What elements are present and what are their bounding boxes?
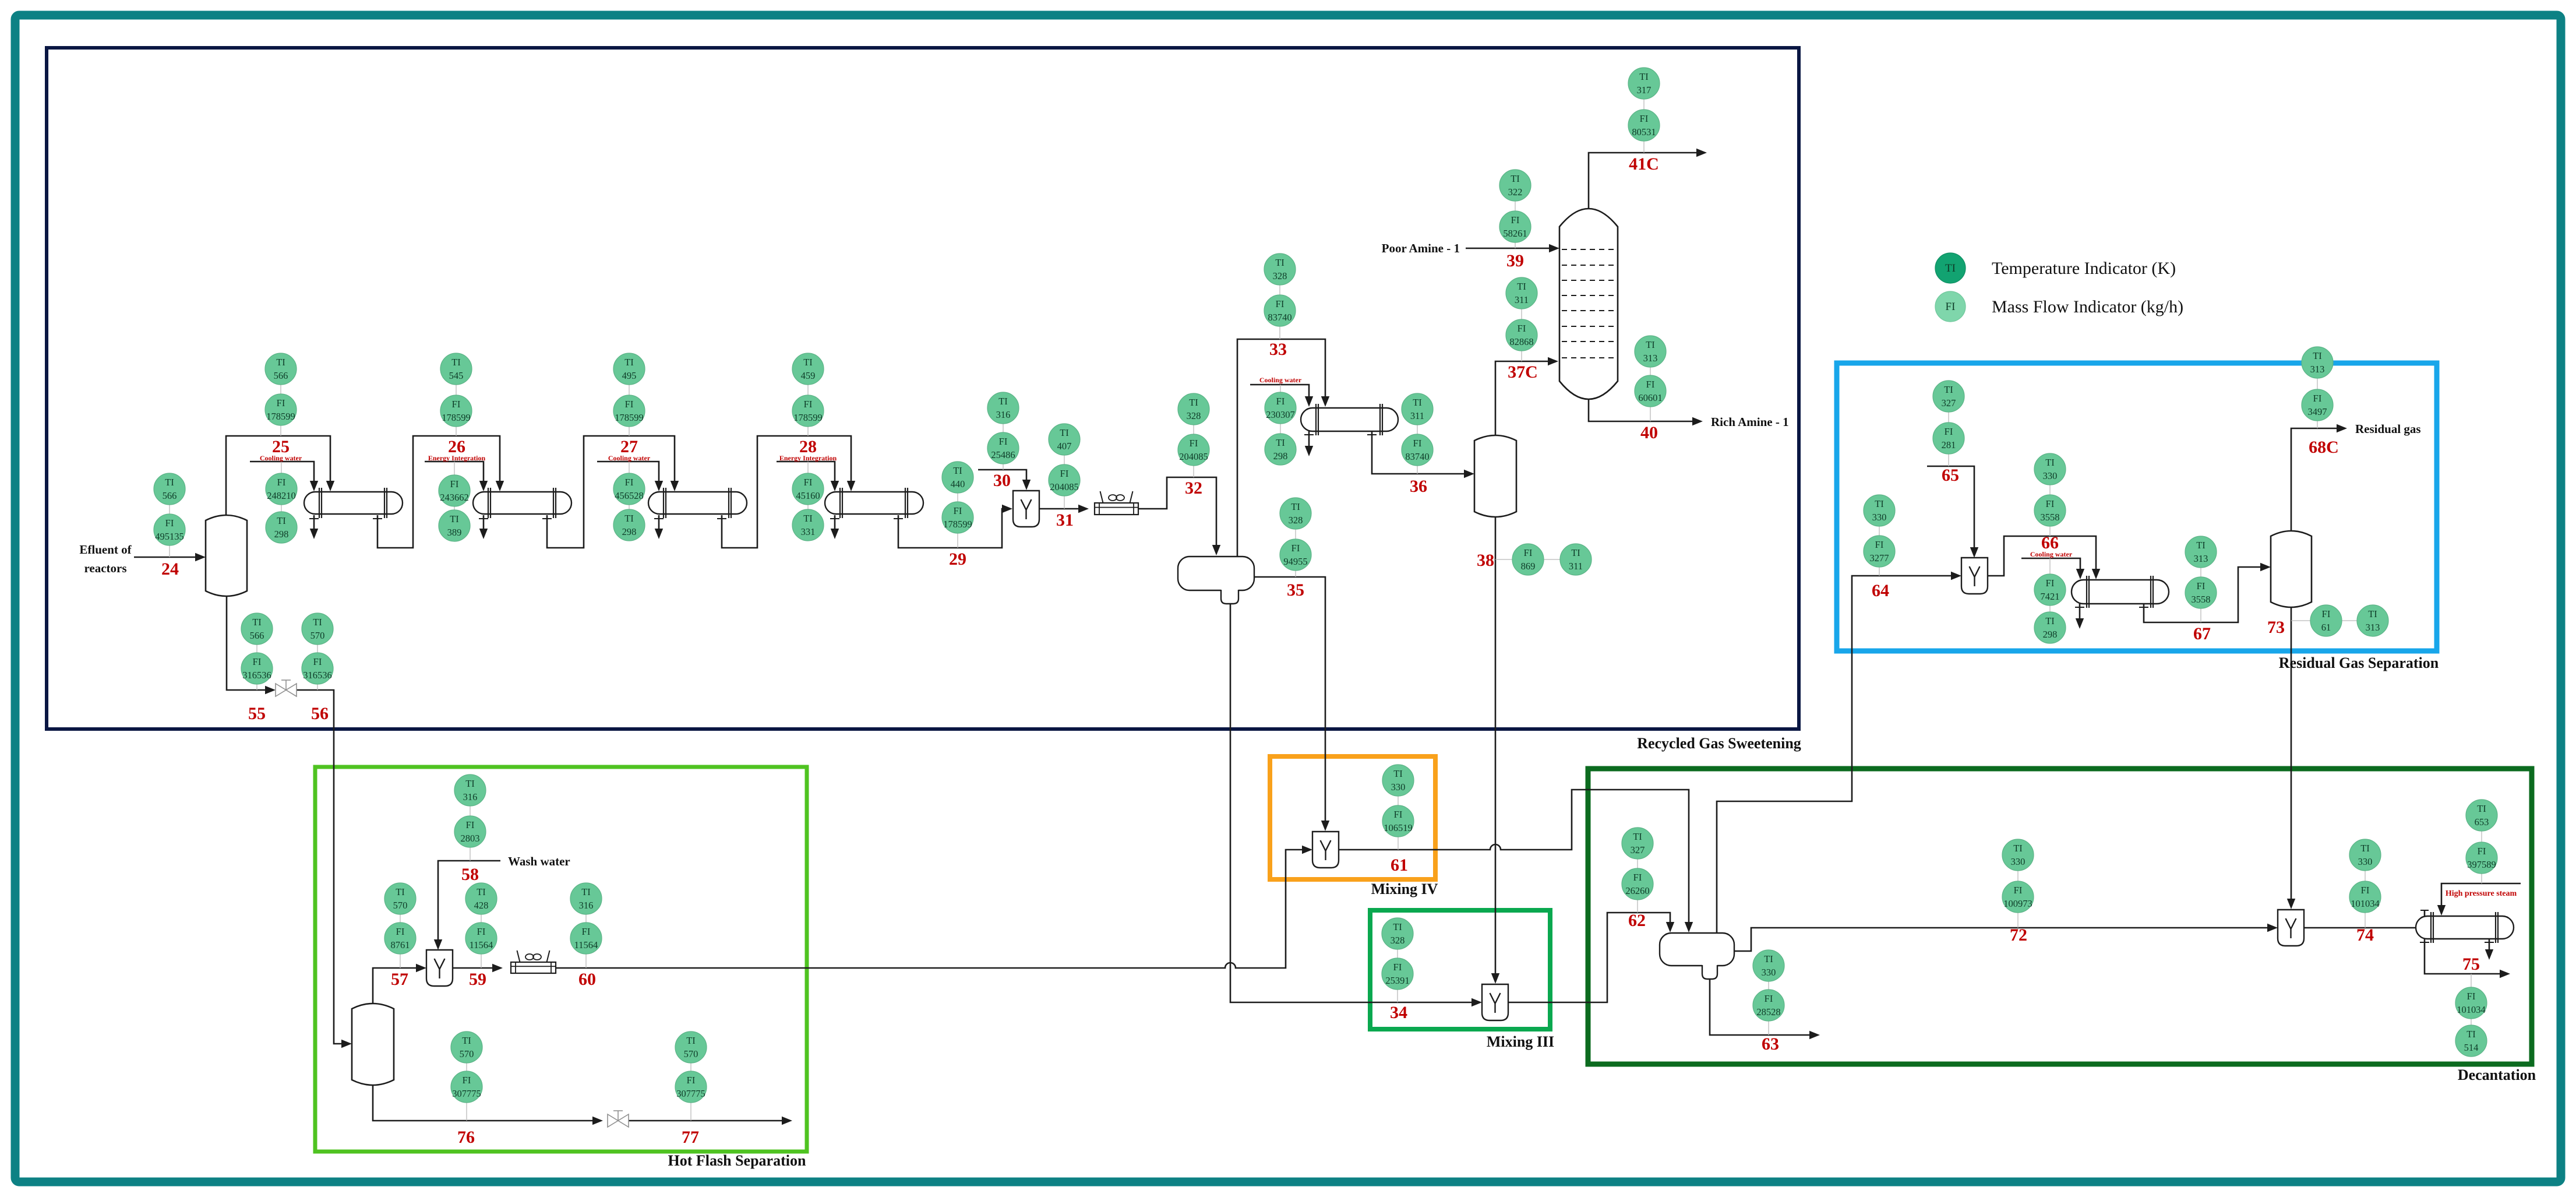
svg-text:Mixing III: Mixing III — [1487, 1033, 1554, 1050]
wire: HX6 process outlet to vessel V4 (stream 67) — [2139, 607, 2148, 608]
valve between streams 76 and 77 — [608, 1114, 618, 1127]
svg-text:570: 570 — [460, 1048, 474, 1059]
connector 25 util — [281, 462, 282, 527]
instrument FI 178599 stream 26 — [440, 395, 472, 427]
svg-text:FI: FI — [2478, 846, 2486, 857]
svg-text:FI: FI — [1393, 962, 1402, 973]
svg-text:TI: TI — [1944, 384, 1953, 395]
svg-text:566: 566 — [250, 630, 264, 641]
svg-text:FI: FI — [1945, 426, 1953, 437]
svg-text:869: 869 — [1521, 561, 1536, 572]
wire: compressor K1 outlet to drum D1 (stream 32) — [1138, 477, 1216, 547]
svg-text:58261: 58261 — [1503, 228, 1527, 239]
instrument TI 327 stream 62 — [1622, 828, 1653, 859]
svg-text:322: 322 — [1508, 186, 1523, 198]
wire: cooling water into HX3 — [597, 462, 659, 484]
instrument FI 2803 stream 58 — [454, 816, 486, 847]
svg-text:68C: 68C — [2309, 438, 2339, 457]
svg-text:FI: FI — [1524, 547, 1533, 558]
legend FI circle — [1935, 291, 1965, 322]
wire: wash water into mixer M2 (stream 58) — [438, 861, 500, 942]
wire: HX3 utility outlet — [654, 518, 664, 519]
wire: HX6 utility outlet — [2075, 607, 2084, 608]
instrument FI 45160 energy integration 28 — [792, 473, 824, 505]
instrument TI 331 energy integration 28 — [792, 509, 824, 541]
wire: vessel V4 top residual gas (stream 68C) — [2291, 428, 2339, 531]
svg-text:83740: 83740 — [1268, 312, 1291, 323]
connector 24 — [169, 489, 170, 557]
instrument TI 313 stream 73 — [2357, 605, 2388, 636]
svg-text:TI: TI — [803, 357, 813, 368]
instrument FI 316536 stream 55 — [241, 653, 273, 684]
svg-text:TI: TI — [624, 357, 634, 368]
svg-text:24: 24 — [161, 559, 179, 579]
svg-text:316536: 316536 — [303, 670, 332, 681]
svg-text:72: 72 — [2010, 925, 2027, 945]
svg-text:FI: FI — [804, 399, 813, 410]
wire: drum D1 liquid to mixer M3 (stream 35) — [1254, 577, 1325, 823]
svg-text:FI: FI — [625, 477, 634, 488]
instrument FI 7421 cooling water 66 — [2034, 574, 2066, 605]
svg-text:Residual gas: Residual gas — [2355, 422, 2421, 436]
connector 58 — [470, 790, 471, 861]
wire: mixer M2 outlet (stream 59) — [453, 967, 495, 969]
svg-text:High pressure steam: High pressure steam — [2446, 889, 2517, 898]
svg-text:Residual Gas Separation: Residual Gas Separation — [2279, 654, 2439, 671]
section box: Residual Gas Separation — [1837, 363, 2437, 651]
svg-text:TI: TI — [803, 513, 813, 524]
svg-text:FI: FI — [1765, 993, 1773, 1004]
svg-text:58: 58 — [461, 865, 479, 884]
svg-text:330: 330 — [1872, 512, 1887, 523]
svg-text:313: 313 — [1643, 353, 1658, 364]
connector 30 — [1003, 408, 1004, 470]
wire: HX7 vent nozzle — [2424, 910, 2426, 916]
svg-text:Wash water: Wash water — [508, 854, 570, 868]
instrument FI 178599 stream 27 — [613, 395, 645, 427]
connector 60 — [585, 899, 587, 968]
svg-text:FI: FI — [1291, 543, 1300, 554]
heat exchanger E4 (energy integration, stream 28) — [825, 492, 923, 514]
drum D2 decanter with boot — [1660, 933, 1734, 966]
instrument TI 330 stream 72 — [2002, 839, 2034, 871]
instrument FI 307775 stream 77 — [675, 1071, 707, 1103]
wire: mixer M1 outlet (stream 31) — [1040, 508, 1081, 510]
wire: drum D1 boot to mixer M4 (stream 34) — [1230, 604, 1474, 1002]
section box: Mixing IV — [1270, 756, 1435, 879]
wire: vessel V4 bottom to mixer M6 (stream 73) — [2291, 607, 2292, 901]
svg-text:311: 311 — [1569, 561, 1583, 572]
instrument FI 28528 stream 63 — [1753, 990, 1784, 1021]
wire: vessel V1 top to HX1 (stream 25) — [226, 436, 330, 515]
svg-text:FI: FI — [804, 477, 813, 488]
svg-text:545: 545 — [449, 370, 464, 381]
instrument TI 327 stream 65 — [1933, 381, 1964, 412]
svg-text:330: 330 — [1391, 781, 1406, 793]
svg-text:Decantation: Decantation — [2458, 1066, 2536, 1083]
instrument TI 440 stream 29 — [942, 462, 973, 493]
instrument TI 328 stream 32 — [1178, 393, 1209, 425]
svg-text:FI: FI — [1511, 214, 1520, 226]
svg-text:313: 313 — [2366, 622, 2380, 633]
section box: Recycled Gas Sweetening — [47, 48, 1799, 729]
svg-text:298: 298 — [1273, 450, 1288, 462]
wire: cooling water into HX1 — [250, 462, 314, 484]
instrument FI 11564 stream 60 — [570, 923, 602, 954]
svg-text:FI: FI — [1875, 539, 1884, 550]
connector 62 — [1637, 843, 1638, 913]
svg-text:204085: 204085 — [1050, 481, 1079, 492]
svg-text:11564: 11564 — [470, 939, 493, 950]
svg-text:TI: TI — [1517, 281, 1526, 292]
svg-text:2803: 2803 — [461, 833, 480, 844]
vessel V4 residual gas separator — [2271, 531, 2312, 607]
svg-text:TI: TI — [1764, 953, 1773, 964]
svg-text:FI: FI — [1413, 438, 1422, 449]
svg-text:TI: TI — [451, 357, 461, 368]
connector 55 — [256, 629, 257, 690]
wire: mixer M4 outlet to drum D2 (stream 62) — [1509, 913, 1670, 1002]
svg-text:TI: TI — [465, 778, 475, 789]
svg-text:TI: TI — [1571, 547, 1580, 558]
connector 74 — [2365, 855, 2366, 928]
connector 28 util — [807, 462, 809, 525]
wire: HX3 process outlet to HX4 (stream 28) — [717, 518, 726, 519]
svg-text:FI: FI — [1633, 872, 1642, 883]
svg-text:100973: 100973 — [2003, 898, 2032, 909]
svg-text:178599: 178599 — [442, 412, 471, 423]
svg-text:Poor Amine - 1: Poor Amine - 1 — [1382, 241, 1460, 255]
instrument FI 178599 stream 29 — [942, 502, 973, 533]
svg-text:Mixing IV: Mixing IV — [1371, 881, 1438, 897]
svg-text:FI: FI — [2361, 885, 2370, 896]
instrument TI 514 stream 75 — [2455, 1025, 2487, 1057]
svg-text:FI: FI — [1060, 468, 1069, 479]
instrument FI 26260 stream 62 — [1622, 868, 1653, 900]
svg-text:FI: FI — [1646, 379, 1655, 390]
svg-text:45160: 45160 — [796, 490, 820, 501]
svg-text:298: 298 — [2043, 629, 2058, 640]
svg-text:36: 36 — [1410, 477, 1427, 496]
svg-text:298: 298 — [622, 526, 637, 537]
svg-text:64: 64 — [1872, 581, 1889, 600]
instrument FI 204085 stream 31 — [1049, 464, 1080, 496]
svg-text:FI: FI — [463, 1075, 471, 1086]
svg-text:330: 330 — [2358, 856, 2373, 867]
connector 63 — [1768, 966, 1769, 1035]
instrument TI 566 stream 25 — [265, 353, 297, 385]
svg-text:67: 67 — [2193, 624, 2211, 643]
svg-text:FI: FI — [2014, 885, 2023, 896]
svg-text:60: 60 — [578, 970, 596, 989]
connector 28 — [807, 369, 809, 436]
instrument TI 316 stream 30 — [987, 392, 1019, 424]
column tray 6 — [1562, 326, 1615, 327]
wire: drum D2 vapor to mixer M5 (stream 64) — [1717, 576, 1953, 933]
instrument FI 204085 stream 32 — [1178, 434, 1209, 466]
air cooler K2 (stream 59) — [511, 962, 556, 973]
svg-text:459: 459 — [801, 370, 816, 381]
svg-text:TI: TI — [2313, 350, 2322, 361]
svg-text:33: 33 — [1269, 340, 1287, 359]
wire: HX5 process outlet to vessel V2 (stream 36) — [1367, 434, 1377, 435]
instrument FI 25391 stream 34 — [1382, 958, 1413, 990]
svg-text:61: 61 — [1391, 855, 1408, 875]
instrument FI 316536 stream 56 — [302, 653, 333, 684]
connector 26 — [456, 369, 457, 436]
svg-text:178599: 178599 — [266, 411, 295, 422]
wire: column overhead (stream 41C) — [1589, 153, 1699, 209]
svg-text:TI: TI — [1639, 71, 1649, 82]
instrument FI 248210 cooling water 25 — [266, 473, 297, 505]
instrument FI 106519 stream 61 — [1382, 805, 1414, 837]
instrument TI 389 energy integration 26 — [439, 510, 470, 541]
instrument FI 456528 cooling water 27 — [613, 473, 645, 505]
connector 66 — [2049, 469, 2051, 536]
svg-text:FI: FI — [625, 399, 634, 410]
connector 37C — [1521, 293, 1522, 361]
svg-text:TI: TI — [277, 515, 286, 526]
svg-text:495135: 495135 — [155, 531, 184, 542]
svg-text:566: 566 — [163, 490, 177, 501]
wire: vessel V2 bottom to mixer M4 (stream 38) — [1495, 517, 1497, 976]
wire: cooling water into HX6 — [2021, 558, 2080, 571]
connector 27 — [629, 369, 630, 436]
svg-text:570: 570 — [393, 900, 408, 911]
svg-text:566: 566 — [274, 370, 288, 381]
instrument FI 83740 stream 33 — [1264, 295, 1296, 326]
instrument TI 322 stream 39 — [1499, 170, 1531, 201]
svg-text:Efluent of: Efluent of — [79, 543, 132, 557]
svg-text:316: 316 — [463, 791, 478, 802]
wire: HX1 cooling water outlet — [309, 518, 319, 519]
connector 77 — [690, 1047, 691, 1121]
wire: stream 30 into mixer M1 — [978, 470, 1026, 483]
svg-text:178599: 178599 — [615, 412, 644, 423]
svg-text:TI: TI — [2360, 843, 2370, 854]
wire: HX2 process outlet to HX3 (stream 27) — [542, 518, 552, 519]
wire: vessel V3 bottom streams 76/77 — [373, 1085, 595, 1121]
instrument FI 58261 stream 39 — [1499, 211, 1531, 242]
svg-text:TI: TI — [581, 886, 591, 897]
svg-text:316: 316 — [996, 409, 1011, 420]
svg-text:FI: FI — [313, 656, 322, 667]
svg-text:407: 407 — [1057, 441, 1072, 452]
instrument TI 298 cooling water 27 — [613, 509, 645, 541]
instrument FI 80531 stream 41C — [1628, 110, 1660, 141]
svg-text:TI: TI — [396, 886, 405, 897]
connector 59 — [481, 899, 482, 968]
svg-text:28528: 28528 — [1756, 1006, 1780, 1018]
svg-text:514: 514 — [2464, 1042, 2479, 1053]
svg-text:204085: 204085 — [1179, 451, 1208, 462]
svg-text:313: 313 — [2310, 364, 2325, 375]
svg-text:FI: FI — [2313, 393, 2322, 404]
heat exchanger E5 (cooling water, stream 33) — [1301, 408, 1398, 431]
svg-text:FI: FI — [477, 926, 486, 937]
svg-text:TI: TI — [1875, 498, 1884, 509]
svg-text:TI: TI — [2196, 540, 2206, 551]
svg-text:389: 389 — [447, 527, 462, 538]
svg-text:60601: 60601 — [1638, 392, 1662, 403]
svg-text:59: 59 — [469, 970, 486, 989]
instrument FI 25486 stream 30 — [987, 432, 1019, 464]
svg-text:TI: TI — [1291, 501, 1300, 512]
svg-text:330: 330 — [2011, 856, 2025, 867]
wire: column bottoms rich amine (stream 40) — [1589, 399, 1695, 421]
instrument TI 298 cooling water 66 — [2034, 612, 2066, 643]
svg-text:495: 495 — [622, 370, 637, 381]
instrument FI 101034 stream 75 — [2455, 987, 2487, 1019]
svg-text:230307: 230307 — [1266, 409, 1295, 420]
svg-text:TI: TI — [462, 1035, 471, 1046]
instrument FI 3277 stream 64 — [1864, 536, 1895, 567]
svg-text:FI: FI — [277, 397, 285, 409]
svg-text:TI: TI — [276, 357, 285, 368]
svg-text:FI: FI — [452, 399, 461, 410]
instrument TI 495 stream 27 — [613, 353, 645, 385]
svg-text:Hot Flash Separation: Hot Flash Separation — [668, 1152, 806, 1169]
heat exchanger E2 (energy integration, stream 26) — [473, 492, 571, 514]
instrument TI 428 stream 59 — [465, 883, 497, 914]
instrument FI 869 stream 38 — [1512, 544, 1544, 575]
connector 64 — [1879, 511, 1880, 576]
svg-text:FI: FI — [165, 517, 174, 529]
svg-text:61: 61 — [2321, 622, 2331, 633]
connector 29 — [957, 477, 958, 548]
connector 25 — [280, 369, 281, 436]
svg-text:570: 570 — [684, 1048, 698, 1059]
drum D1 with boot (stream 32) — [1178, 557, 1254, 590]
svg-text:TI: TI — [1393, 921, 1402, 932]
svg-text:327: 327 — [1631, 844, 1645, 855]
svg-text:FI: FI — [1640, 113, 1649, 124]
wire: stream 24 feed — [134, 557, 196, 558]
svg-text:TI: TI — [450, 513, 459, 524]
connector 40 — [1650, 351, 1651, 421]
svg-text:178599: 178599 — [943, 519, 972, 530]
svg-text:TI: TI — [1189, 397, 1198, 408]
svg-text:311: 311 — [1410, 410, 1424, 421]
svg-text:311: 311 — [1515, 294, 1529, 305]
mixer M4 Mixing III — [1482, 984, 1508, 1020]
svg-text:73: 73 — [2267, 618, 2285, 637]
instrument FI 100973 stream 72 — [2002, 881, 2034, 913]
instrument TI 298 cooling water 33 — [1265, 434, 1296, 465]
instrument TI 407 stream 31 — [1049, 424, 1080, 455]
svg-text:440: 440 — [951, 478, 965, 490]
instrument TI 313 stream 67 — [2185, 536, 2217, 568]
connector 66 util — [2049, 558, 2051, 628]
svg-text:37C: 37C — [1508, 362, 1538, 382]
connector 67 — [2200, 552, 2201, 622]
svg-text:316: 316 — [579, 900, 594, 911]
svg-text:327: 327 — [1942, 397, 1956, 409]
instrument FI 3497 stream 68C — [2302, 389, 2333, 421]
connector 75 — [2471, 974, 2472, 1041]
svg-text:TI: TI — [624, 513, 634, 524]
wire: HX5 utility outlet — [1304, 434, 1314, 435]
svg-text:TI: TI — [2368, 608, 2377, 619]
svg-text:TI: TI — [1413, 397, 1422, 408]
wire: compressor K2 outlet to mixer M3 (stream 60) — [556, 850, 1304, 968]
column tray 1 — [1562, 249, 1615, 250]
svg-text:26260: 26260 — [1625, 885, 1649, 896]
svg-text:TI: TI — [1275, 257, 1285, 268]
svg-text:40: 40 — [1640, 423, 1658, 442]
svg-text:328: 328 — [1273, 270, 1287, 281]
svg-text:Cooling water: Cooling water — [608, 454, 651, 462]
svg-text:FI: FI — [1276, 396, 1285, 407]
vessel V1 flash drum (stream 24) — [206, 515, 247, 596]
legend TI circle — [1935, 253, 1965, 283]
instrument TI 316 stream 60 — [570, 883, 602, 914]
connector 76 — [466, 1047, 467, 1121]
svg-text:428: 428 — [474, 900, 489, 911]
instrument TI 330 stream 66 — [2034, 453, 2066, 485]
mixer M2 (streams 57/58) — [426, 950, 453, 986]
instrument TI 566 stream 55 — [241, 613, 273, 645]
svg-text:82868: 82868 — [1509, 336, 1533, 347]
svg-text:39: 39 — [1506, 251, 1524, 270]
wire: HX4 process outlet to mixer M1 (stream 29) — [894, 518, 903, 519]
instrument FI 3558 stream 67 — [2185, 577, 2217, 608]
connector 33 — [1279, 269, 1280, 339]
instrument FI 281 stream 65 — [1933, 423, 1964, 454]
svg-text:FI: FI — [2322, 608, 2331, 619]
wire: vessel V3 top to mixer M2 (stream 57) — [373, 968, 418, 1004]
svg-text:34: 34 — [1390, 1003, 1407, 1022]
svg-text:TI: TI — [998, 396, 1008, 407]
wire: high pressure steam into HX7 — [2441, 883, 2521, 907]
wire: HX1 process outlet to HX2 (stream 26) — [373, 518, 382, 519]
wire: energy integration into HX4 — [777, 462, 835, 484]
column tray 2 — [1562, 265, 1615, 266]
svg-text:FI: FI — [2046, 498, 2055, 509]
instrument FI 495135 stream 24 — [154, 514, 185, 545]
instrument TI 311 stream 37C — [1506, 277, 1537, 309]
svg-text:25391: 25391 — [1385, 975, 1409, 986]
svg-text:38: 38 — [1477, 551, 1494, 570]
svg-text:FI: FI — [2046, 578, 2055, 589]
svg-text:328: 328 — [1289, 515, 1303, 526]
svg-text:TI: TI — [2466, 1029, 2476, 1040]
column tray 4 — [1562, 295, 1615, 296]
connector 72 — [2017, 855, 2019, 928]
svg-text:FI: FI — [466, 819, 475, 830]
instrument TI 570 stream 56 — [302, 613, 333, 645]
svg-text:307775: 307775 — [676, 1088, 705, 1099]
svg-text:TI: TI — [1276, 437, 1285, 448]
svg-text:63: 63 — [1762, 1034, 1779, 1054]
svg-text:FI: FI — [1394, 809, 1403, 820]
heat exchanger E7 (high pressure steam, stream 74) — [2416, 916, 2514, 939]
svg-text:FI: FI — [277, 477, 286, 488]
svg-text:FI: FI — [253, 656, 262, 667]
instrument FI 83740 stream 36 — [1402, 434, 1433, 466]
svg-text:94955: 94955 — [1283, 556, 1307, 567]
instrument TI 328 stream 34 — [1382, 918, 1413, 949]
instrument FI 178599 stream 28 — [792, 395, 824, 427]
svg-text:313: 313 — [2194, 553, 2208, 564]
svg-text:3497: 3497 — [2308, 406, 2327, 417]
wire: HX7 process outlet (stream 75) — [2420, 942, 2429, 943]
svg-text:TI: TI — [2045, 615, 2055, 626]
mixer M5 (streams 64/65) — [1961, 558, 1988, 594]
wire: cooling water into HX5 — [1250, 385, 1309, 399]
connector 38 row — [1495, 559, 1576, 560]
svg-text:TI: TI — [953, 465, 962, 476]
